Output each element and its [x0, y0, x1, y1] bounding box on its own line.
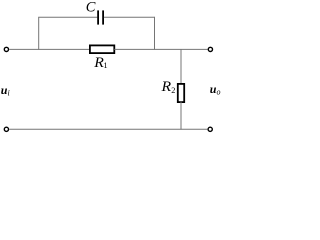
- label: u_o output voltage: [210, 82, 221, 97]
- svg-text:C: C: [86, 0, 96, 15]
- resistor R1: [90, 45, 114, 53]
- terminal: output top (right circle): [208, 47, 212, 51]
- terminal: output bottom (right circle): [208, 127, 212, 131]
- label: R2: [160, 80, 175, 95]
- wire: middle rail from R1 to output terminal: [114, 48, 207, 50]
- svg-text:R: R: [93, 56, 104, 71]
- wire: left vertical riser to capacitor branch: [38, 17, 40, 50]
- wire: top-left rail from input terminal to R1: [9, 48, 90, 50]
- label: R1: [93, 56, 107, 71]
- terminal: input bottom (left circle): [4, 127, 8, 131]
- label: C value: [86, 0, 96, 15]
- label: u_i input voltage: [1, 83, 10, 98]
- svg-text:2: 2: [171, 86, 175, 95]
- wire: bottom rail: [9, 128, 207, 130]
- wire: R2 branch lower segment to bottom rail: [180, 102, 182, 130]
- wire: right vertical drop of capacitor branch: [154, 17, 156, 50]
- svg-text:R: R: [160, 80, 171, 95]
- terminal: input top (left circle): [4, 47, 8, 51]
- wire: top branch right segment from capacitor: [104, 16, 155, 18]
- wire: top branch left segment to capacitor: [38, 16, 97, 18]
- svg-text:1: 1: [103, 60, 107, 70]
- capacitor C: [98, 10, 103, 24]
- resistor R2: [178, 84, 184, 102]
- svg-text:uo: uo: [210, 82, 221, 97]
- svg-text:ui: ui: [1, 83, 10, 98]
- wire: R2 branch upper segment: [180, 49, 182, 84]
